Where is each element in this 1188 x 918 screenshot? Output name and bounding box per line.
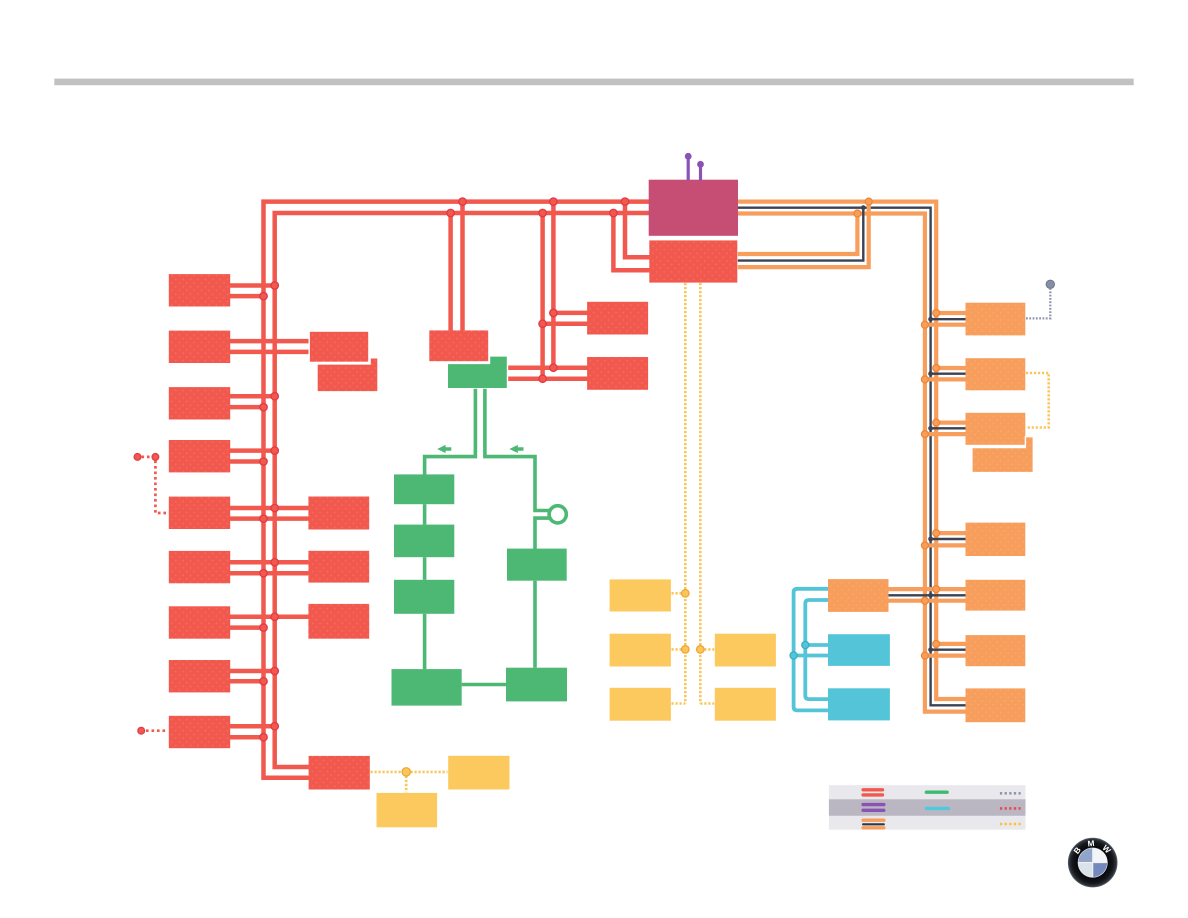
wire orange loop bottom — [738, 204, 869, 267]
antenna purple 2 tip — [697, 161, 704, 168]
junction red dot 22 — [260, 734, 267, 741]
wire red K-CAN outer bus (top + left vertical + bottom elbow) — [264, 202, 650, 778]
module yellow L3 — [610, 688, 671, 721]
svg-text:M: M — [1087, 839, 1095, 849]
junction red dot 13 — [271, 504, 278, 511]
wire stub row5 bottom — [230, 516, 309, 521]
wire orange stub top box2 — [936, 366, 966, 370]
wire navy stub box1 — [931, 318, 967, 320]
legend navy line — [863, 823, 884, 825]
wire red drop to mid module (inner) — [448, 213, 453, 332]
wire green left branch — [425, 389, 476, 476]
junction red dot 8 — [260, 292, 267, 299]
wire red K-CAN inner bus (top + left vertical + bottom elbow) — [275, 213, 649, 767]
module green gateway (offset tab) — [447, 356, 507, 389]
wire orange stub bottom box4 — [925, 543, 966, 547]
wire green A4-B2 — [462, 683, 506, 687]
junction navy dot 2 — [928, 317, 933, 322]
junction red dot 6 — [610, 209, 617, 216]
junction red dot 12 — [260, 458, 267, 465]
junction orange dot 2 — [865, 198, 872, 205]
wire navy bus — [738, 208, 966, 706]
legend orange line 1 — [863, 819, 884, 822]
wire green A2-A3 — [423, 557, 427, 580]
wire red drop mid-right (inner) — [540, 213, 545, 379]
module orange R3 — [966, 413, 1026, 445]
antenna purple 1 — [687, 159, 690, 181]
wire orange bus outer — [738, 202, 966, 699]
wire green A1-A2 — [423, 504, 427, 524]
junction red dot 11 — [271, 447, 278, 454]
module red R6 — [308, 551, 369, 583]
junction red dot 24 — [539, 320, 546, 327]
junction red dot 10 — [260, 403, 267, 410]
wire stub row8 top — [230, 669, 275, 674]
wire stub row4 bottom — [230, 459, 264, 464]
wire red drop to mid module (outer) — [460, 202, 465, 332]
module red L7 — [169, 606, 230, 638]
junction red dot 21 — [271, 723, 278, 730]
wire orange stub bottom box5 — [925, 653, 966, 657]
wire stub row9 top — [230, 724, 275, 729]
wire navy row5 — [888, 594, 966, 596]
module gateway lower (red) — [649, 240, 737, 282]
wire orange stub top box5 — [936, 642, 966, 646]
wire stub row7 top — [230, 615, 309, 620]
module yellow L1 — [610, 579, 671, 611]
junction orange dot 6 — [921, 376, 928, 383]
wire red elbow into gateway lower box (outer) — [625, 202, 651, 258]
module yellow bottom B — [377, 793, 438, 827]
wire orange stub top box4 — [936, 531, 966, 535]
junction yellow dot 3 — [697, 646, 705, 654]
legend red dotted — [1000, 807, 1021, 810]
wire red elbow into gateway lower box (inner) — [613, 213, 650, 270]
junction red dot 7 — [271, 282, 278, 289]
module orange left (DSC) — [828, 579, 889, 612]
junction orange dot 4 — [921, 321, 928, 328]
wire stub row8 bottom — [230, 679, 264, 684]
dotted red link lower — [146, 729, 168, 732]
module green A2 — [394, 525, 454, 558]
legend green line — [926, 791, 947, 794]
wire stub row4 top — [230, 448, 275, 453]
wire red from green module to lower mid-right box (top) — [507, 365, 589, 370]
junction red dot 3 — [621, 198, 628, 205]
module red mid-right lower — [587, 357, 648, 390]
wire orange row5 bottom — [888, 599, 966, 603]
junction red dot 23 — [550, 309, 557, 316]
arrow green left — [437, 445, 451, 453]
junction orange dot 5 — [933, 365, 940, 372]
top gray rule — [54, 79, 1133, 86]
junction navy dot 6 — [928, 593, 933, 598]
module yellow R5 — [715, 688, 776, 721]
wire stub row3 bottom — [230, 405, 264, 410]
junction red dot 5 — [539, 209, 546, 216]
module orange R7 — [966, 688, 1026, 722]
dotted red link upper — [142, 457, 168, 513]
wire navy stub box5 — [931, 649, 967, 651]
dotted yellow link bottom-left — [371, 771, 448, 774]
wire teal stub T1 inner — [805, 643, 828, 647]
antenna purple 1 tip — [685, 153, 692, 160]
junction orange dot 8 — [921, 431, 928, 438]
junction red dot 4 — [447, 209, 454, 216]
junction navy dot 5 — [928, 537, 933, 542]
coil green loop — [549, 506, 566, 523]
module green A3 — [394, 580, 454, 614]
module red L5 — [169, 497, 230, 529]
junction orange dot 11 — [933, 586, 940, 593]
node red dot upper B — [152, 454, 159, 461]
wire orange stub bottom box2 — [925, 377, 966, 381]
junction red dot 9 — [271, 393, 278, 400]
wire stub row2 top — [230, 339, 310, 344]
junction orange dot 7 — [933, 419, 940, 426]
junction red dot 15 — [271, 559, 278, 566]
BMW logo — [1068, 838, 1118, 888]
module red offset pair upper — [309, 331, 369, 362]
wire green A3-A4 — [423, 614, 427, 669]
wire teal outer loop — [794, 589, 828, 711]
legend teal line — [926, 807, 948, 810]
dotted yellow vertical right — [699, 283, 702, 704]
legend purple line 1 — [863, 803, 884, 806]
junction red dot 14 — [260, 515, 267, 522]
module yellow R4 — [715, 634, 776, 667]
node red dot upper A — [134, 454, 141, 461]
wire green loop exit — [535, 518, 550, 550]
wire orange row5 top — [888, 587, 966, 591]
module red R7 — [308, 604, 369, 639]
junction navy dot 7 — [928, 647, 933, 652]
junction navy dot 1 — [861, 205, 866, 210]
wire stub upper mid-right box — [553, 311, 588, 316]
wire orange loop top — [738, 216, 858, 254]
junction teal dot inner — [802, 641, 809, 648]
junction orange dot 12 — [921, 597, 928, 604]
junction red dot 18 — [260, 624, 267, 631]
module orange R5 — [966, 580, 1026, 611]
wire teal stub T1 outer — [794, 654, 828, 658]
wire orange stub bottom box3 — [925, 432, 966, 436]
module green A4 (bottom left) — [392, 669, 462, 706]
junction red dot 2 — [550, 198, 557, 205]
wire navy loop — [738, 209, 864, 261]
module red L4 — [169, 440, 230, 472]
wire orange stub bottom box1 — [925, 323, 966, 327]
dotted gray link — [1026, 289, 1050, 318]
module yellow bottom A — [448, 756, 509, 790]
module orange R2 — [966, 358, 1026, 390]
module orange offset lower — [972, 437, 1033, 473]
node yellow dot bottom-left — [402, 768, 410, 776]
wire stub row3 top — [230, 394, 275, 399]
legend purple line 2 — [863, 809, 884, 812]
legend red line 2 — [863, 793, 882, 796]
junction orange dot 13 — [933, 640, 940, 647]
module red bottom (row10) — [309, 756, 370, 790]
legend row 3 background — [829, 816, 1026, 830]
module teal 1 — [828, 634, 890, 666]
wire teal inner loop — [805, 600, 828, 699]
junction red dot 1 — [459, 198, 466, 205]
junction red dot 17 — [271, 613, 278, 620]
junction orange dot 1 — [854, 210, 861, 217]
dotted yellow stub Y5 — [700, 702, 714, 705]
dotted yellow stub Y1 — [672, 592, 686, 595]
junction red dot 19 — [271, 667, 278, 674]
legend gray dotted — [1000, 792, 1021, 795]
wire stub row5 top — [230, 506, 309, 511]
module green B1 — [507, 549, 567, 581]
junction orange dot 3 — [933, 310, 940, 317]
module red L3 — [169, 387, 230, 419]
junction red dot 25 — [550, 364, 557, 371]
dotted yellow vertical left — [684, 283, 687, 704]
junction orange dot 9 — [933, 530, 940, 537]
module yellow L2 — [610, 634, 671, 667]
wire stub row6 top — [230, 560, 309, 565]
legend red line 1 — [863, 788, 882, 791]
dotted yellow stub Y2 — [672, 648, 686, 651]
wire stub row6 bottom — [230, 571, 309, 576]
junction yellow dot 1 — [682, 590, 690, 598]
junction yellow dot 2 — [682, 646, 690, 654]
dotted yellow connector right column — [1026, 373, 1049, 428]
wire navy stub box4 — [931, 538, 967, 540]
dotted yellow stub Y3 — [672, 702, 686, 705]
module red L1 — [169, 274, 230, 306]
wire stub row9 bottom — [230, 735, 264, 740]
module green A1 — [394, 474, 454, 504]
node gray dot — [1046, 280, 1054, 288]
wire stub row2 bottom — [230, 350, 310, 355]
wire orange stub top box3 — [936, 421, 966, 425]
wire navy stub box2 — [931, 373, 967, 375]
junction red dot 26 — [539, 375, 546, 382]
module green B2 (bottom right) — [506, 668, 567, 702]
module red L2 — [169, 331, 230, 363]
junction red dot 16 — [260, 570, 267, 577]
dotted yellow stub Y4 — [700, 648, 714, 651]
junction navy dot 3 — [928, 371, 933, 376]
junction orange dot 10 — [921, 542, 928, 549]
wire stub row1 bottom — [230, 294, 264, 299]
wire navy stub box3 — [931, 427, 967, 429]
junction red dot 20 — [260, 678, 267, 685]
module red offset pair lower — [317, 358, 378, 392]
module orange R4 — [966, 523, 1026, 556]
module orange R6 — [966, 635, 1026, 666]
wire stub lower mid-right box — [543, 322, 588, 327]
legend row 1 background — [829, 785, 1026, 799]
legend orange line 2 — [863, 826, 884, 829]
module red L8 — [169, 660, 230, 692]
module red mid (under drops) — [429, 330, 488, 361]
junction teal dot outer — [790, 652, 797, 659]
wire orange bus inner — [738, 214, 966, 712]
arrow green right — [509, 445, 523, 453]
module teal 2 — [828, 688, 890, 720]
legend row 2 background — [829, 799, 1026, 816]
wire stub row7 bottom — [230, 625, 264, 630]
module red L9 — [169, 716, 230, 748]
module red R5 — [308, 497, 369, 530]
wire red from green module to lower mid-right box (bottom) — [507, 376, 589, 381]
junction navy dot 4 — [928, 426, 933, 431]
legend yellow dotted — [1000, 823, 1021, 826]
module red L6 — [169, 551, 230, 583]
antenna purple 2 — [699, 167, 702, 181]
module orange R1 — [966, 303, 1026, 336]
wire stub row1 top — [230, 283, 275, 288]
node red dot lower — [138, 727, 145, 734]
wire green right branch — [485, 389, 550, 511]
module red mid-right upper — [587, 302, 648, 335]
wire green B1-B2 — [533, 581, 537, 668]
junction orange dot 14 — [921, 652, 928, 659]
wire orange stub top box1 — [936, 311, 966, 315]
dotted yellow drop bottom-left — [405, 772, 408, 792]
wire red drop mid-right (outer) — [551, 202, 556, 368]
module gateway head unit (magenta) — [649, 180, 738, 236]
